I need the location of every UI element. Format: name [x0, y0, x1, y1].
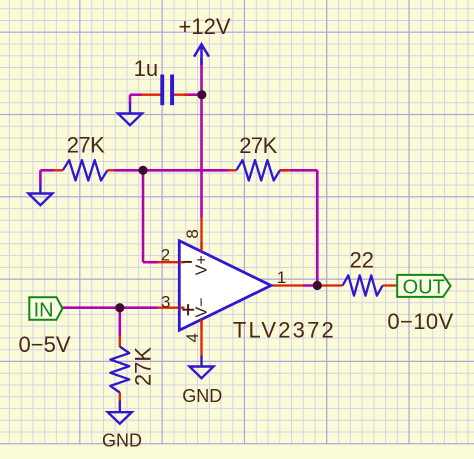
svg-text:IN: IN: [34, 299, 54, 321]
svg-text:GND: GND: [182, 386, 222, 406]
svg-text:1: 1: [277, 268, 286, 287]
svg-text:8: 8: [183, 229, 202, 238]
svg-text:OUT: OUT: [403, 276, 445, 298]
svg-text:0−5V: 0−5V: [19, 332, 71, 357]
svg-text:27K: 27K: [239, 133, 277, 158]
svg-text:27K: 27K: [131, 347, 156, 386]
svg-text:4: 4: [183, 333, 202, 342]
svg-text:+12V: +12V: [179, 14, 231, 39]
svg-text:V−: V−: [194, 297, 211, 317]
svg-text:GND: GND: [102, 430, 142, 450]
svg-text:V+: V+: [193, 255, 210, 275]
svg-text:27K: 27K: [67, 132, 105, 157]
svg-text:TLV2372: TLV2372: [233, 317, 336, 342]
svg-text:3: 3: [161, 292, 170, 311]
svg-text:0−10V: 0−10V: [387, 309, 453, 334]
svg-text:22: 22: [350, 248, 374, 273]
svg-text:2: 2: [161, 245, 170, 264]
svg-text:1u: 1u: [134, 56, 158, 81]
